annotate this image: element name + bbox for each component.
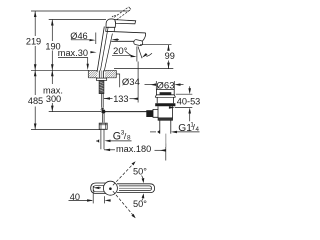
svg-text:4: 4: [196, 126, 200, 133]
threaded shank: [99, 80, 104, 93]
dimension line max.300: [51, 70, 53, 84]
drain body: [158, 106, 173, 118]
svg-text:485: 485: [28, 96, 43, 106]
dashed swing line lower: [113, 191, 135, 217]
svg-text:max.180: max.180: [116, 144, 151, 154]
top view stadium (spout front): [91, 183, 106, 193]
drain locknut band: [158, 118, 173, 121]
deck hatched left block: [88, 70, 97, 78]
leader under max.30: [58, 58, 88, 65]
tilted axis line 20deg: [138, 47, 142, 59]
G1 1/4 leader arrow at tailpipe: [150, 131, 156, 133]
20 degree underline leader: [112, 55, 131, 57]
hose hex fitting: [99, 123, 107, 129]
faucet spout top: [105, 31, 145, 33]
top view lever bar inner: [119, 186, 152, 191]
lower arc arrow at bar: [142, 193, 145, 198]
Ø63 left extension line: [155, 81, 157, 89]
arrow max300 bottom: [51, 106, 54, 112]
extension line deck top left: [31, 69, 89, 71]
faucet neck sides: [106, 27, 115, 31]
arrow at upper dashed end: [132, 161, 136, 165]
svg-text:50°: 50°: [133, 199, 147, 209]
40 extension line 2: [103, 196, 105, 203]
dimension line 99: [168, 45, 170, 49]
40 arrow left at stadium: [93, 187, 99, 190]
upper arc arrow at bar: [142, 178, 145, 183]
G3/8 leader arrow: [105, 140, 111, 143]
svg-text:max.30: max.30: [58, 48, 88, 58]
deck hatched right block: [105, 70, 117, 78]
40-53 dim top arrow: [189, 86, 191, 88]
arrow 219 bottom: [34, 64, 37, 70]
extension line top (219 reference): [31, 10, 129, 12]
svg-text:8: 8: [127, 134, 131, 141]
dimension 133 line right arrow: [130, 98, 139, 100]
arrow 485 bottom: [34, 124, 37, 130]
extension line (190 reference): [49, 19, 106, 21]
extension line hose end left: [31, 129, 100, 131]
dashed swing line upper: [113, 163, 134, 186]
faucet body slant line right: [104, 34, 112, 72]
shank through deck: [99, 71, 103, 79]
aerator: [133, 39, 143, 46]
dimension line 485: [34, 70, 36, 95]
dimension line 219: [34, 11, 36, 36]
extension line Ø46: [95, 33, 97, 45]
arrow max300 top: [51, 70, 54, 76]
G3/8 arrows at pipe: [96, 140, 98, 142]
pop-up rod ball joint: [101, 110, 105, 114]
svg-text:133: 133: [113, 94, 128, 104]
dimension 133 line left arrow: [104, 98, 113, 100]
extension line drain centre bottom: [165, 144, 167, 161]
drain tailpipe: [160, 120, 171, 133]
svg-text:40-53: 40-53: [177, 97, 201, 107]
dimension line 190: [51, 20, 53, 42]
arrow small right of max.30: [90, 51, 96, 53]
svg-text:Ø34: Ø34: [122, 77, 140, 88]
drain neck: [157, 97, 173, 103]
drain plug outline: [156, 89, 174, 94]
Ø34 leader bracket: [116, 74, 119, 87]
arc tail to upper right: [147, 53, 153, 56]
drain side inlet link: [153, 109, 158, 117]
svg-text:Ø46: Ø46: [70, 31, 87, 41]
40 extension line 1: [92, 186, 94, 204]
top view lever bar outer: [117, 184, 155, 193]
drain side inlet knob: [146, 110, 153, 117]
arrow Ø46 right: [112, 39, 118, 41]
Ø63 right outside arrow: [174, 83, 180, 86]
arrow 485 top: [34, 70, 37, 76]
faucet dashed lever raised: [112, 7, 131, 20]
leader under Ø46: [71, 39, 89, 41]
Ø63 right extension line: [173, 81, 175, 89]
arrow max.30 down at deck: [87, 64, 89, 70]
extension line rod level left: [49, 111, 101, 113]
arrow 99 bottom: [167, 63, 170, 69]
drain flange black band: [155, 103, 175, 106]
40 leader line with right arrow: [69, 199, 93, 201]
dimension max.180 left arrow: [104, 149, 115, 151]
faucet body slant line mid: [100, 27, 108, 72]
svg-text:99: 99: [165, 51, 175, 61]
drain centre line: [165, 134, 167, 147]
faucet body slant line outer left: [97, 27, 104, 72]
faucet lever bar: [115, 20, 136, 24]
arrow Ø46 left: [89, 39, 95, 41]
svg-text:219: 219: [26, 36, 41, 46]
vertical rod below ball: [102, 114, 104, 123]
top view body circle: [103, 181, 117, 195]
lower 50 arc: [142, 197, 144, 201]
arrow 219 top: [34, 11, 37, 17]
pop-up horizontal rod: [105, 111, 147, 113]
40 arrow left at ext2: [105, 199, 111, 202]
supply hose upper: [101, 94, 103, 108]
svg-text:300: 300: [46, 94, 61, 104]
40-53 bottom extension line with arrow: [175, 107, 192, 109]
arrow on tilted axis: [142, 53, 148, 58]
G1 1/4 right arrow: [171, 131, 177, 134]
arrow 190 top: [51, 20, 54, 26]
vertical reference line from aerator: [136, 47, 138, 62]
upper 50 arc: [142, 176, 144, 181]
dimension max.180 right arrow: [155, 149, 166, 151]
svg-text:50°: 50°: [133, 167, 147, 177]
faucet pivot dome: [106, 19, 116, 27]
supply pipe lower: [100, 129, 102, 149]
drain flare: [155, 95, 175, 98]
Ø63 left outside arrow: [150, 83, 156, 86]
pop-up rod clamp: [101, 108, 105, 112]
faucet spout bottom: [111, 40, 142, 42]
extension line below aerator: [137, 62, 139, 103]
Ø63 left tail: [145, 84, 154, 86]
top view stadium inner: [93, 185, 104, 191]
arrow 190 bottom: [51, 64, 54, 70]
40-53 top extension line: [176, 93, 193, 95]
arrow at lower dashed end: [131, 214, 135, 218]
washer under deck: [96, 78, 106, 80]
drain plug dark band: [160, 92, 172, 94]
spout right end: [142, 33, 145, 41]
arrow 99 top: [167, 45, 170, 51]
extension line basin level (99 bottom): [114, 68, 173, 70]
top view centre dot: [109, 187, 112, 190]
40-53 dim bottom arrow: [189, 114, 191, 122]
extension line aerator level (99 top): [140, 44, 172, 46]
20 degree arc left with arrow: [125, 51, 135, 57]
